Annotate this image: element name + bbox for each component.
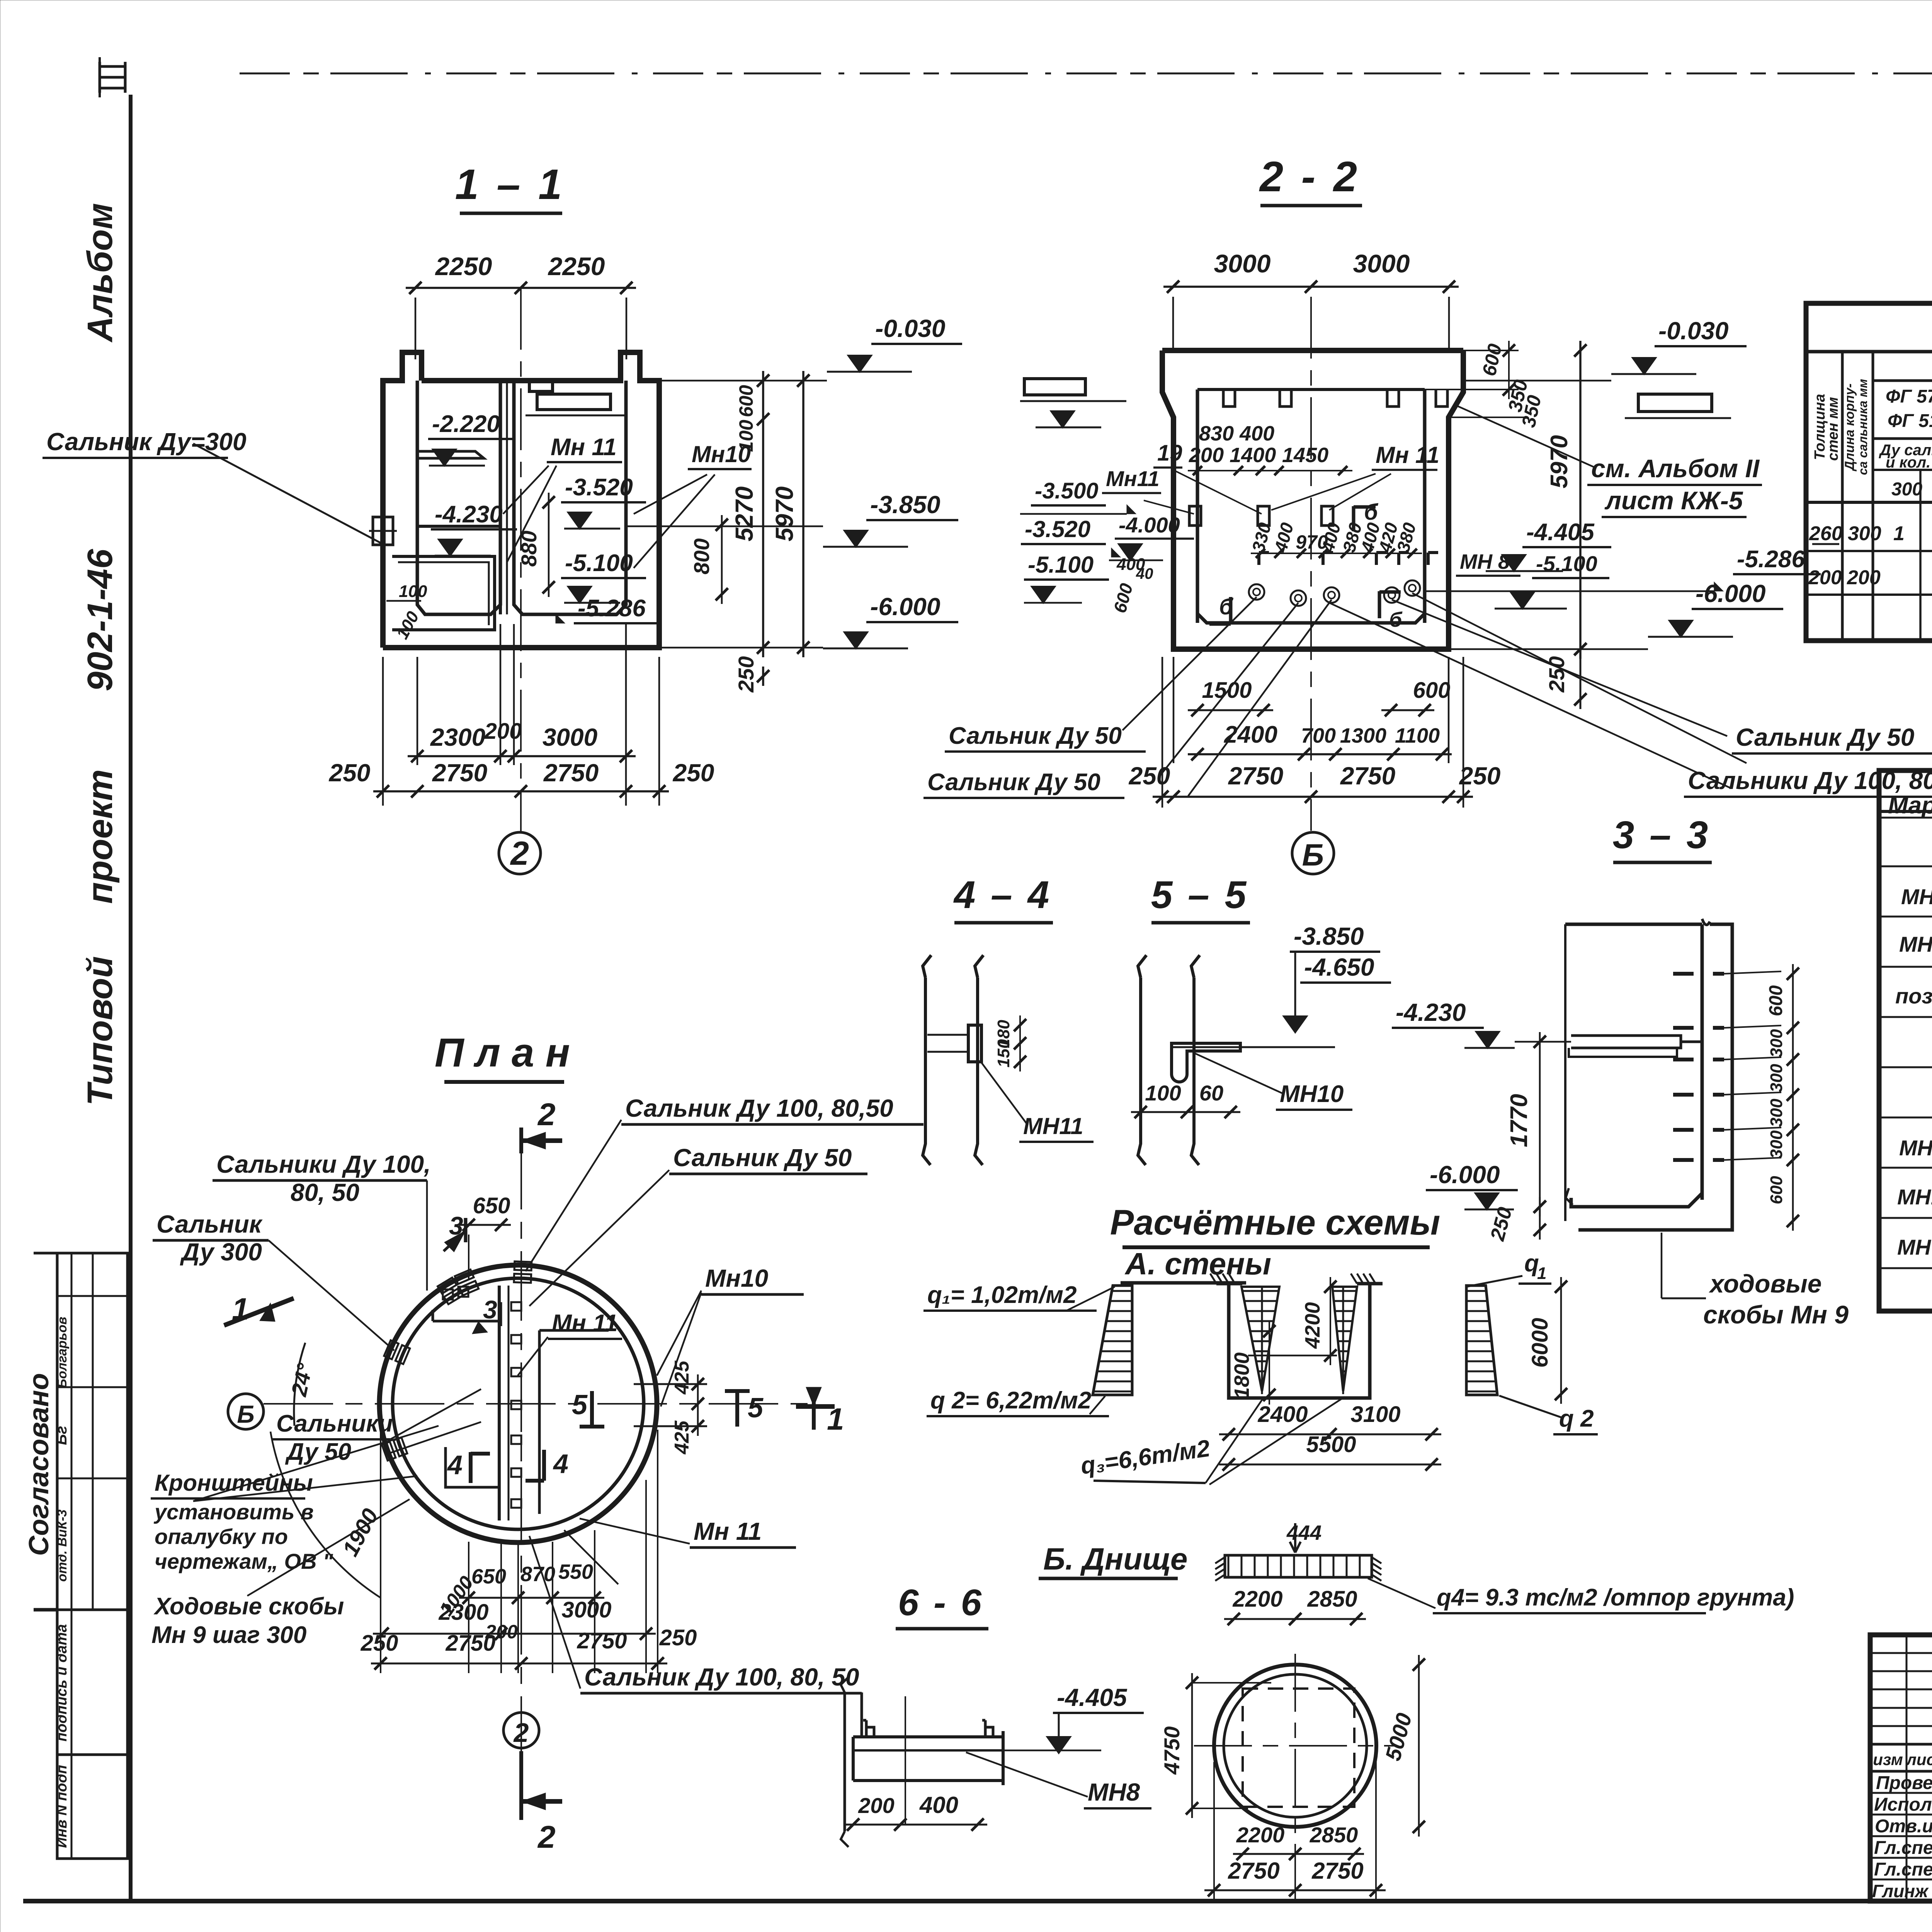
svg-text:1: 1	[827, 1402, 844, 1436]
section 1-1 left chamber ledge at -2.220	[417, 451, 484, 458]
svg-text:550: 550	[558, 1560, 593, 1583]
svg-text:400: 400	[919, 1792, 958, 1818]
svg-text:5: 5	[572, 1389, 588, 1420]
svg-text:Ду 300: Ду 300	[180, 1238, 262, 1266]
svg-text:-3.850: -3.850	[1294, 922, 1364, 950]
svg-text:ФГ 51/58, ФГ51/58а, б: ФГ 51/58, ФГ51/58а, б	[1888, 411, 1932, 431]
svg-text:Глинж пр: Глинж пр	[1872, 1881, 1932, 1901]
svg-text:Гл.спец.: Гл.спец.	[1874, 1859, 1932, 1880]
svg-text:Сальник Ду 50: Сальник Ду 50	[927, 769, 1100, 796]
svg-text:40: 40	[1136, 565, 1153, 582]
svg-text:600: 600	[1766, 985, 1786, 1016]
plan vertical axis	[520, 1140, 522, 1793]
svg-text:250: 250	[734, 656, 758, 692]
svg-text:300: 300	[1891, 479, 1922, 500]
section 1-1 centre axis line	[520, 288, 522, 832]
svg-text:Провер.: Провер.	[1876, 1773, 1932, 1793]
svg-text:4750: 4750	[1160, 1726, 1184, 1775]
svg-text:3000: 3000	[1353, 249, 1410, 278]
svg-text:250: 250	[1129, 762, 1170, 790]
svg-text:-5.100: -5.100	[1028, 552, 1094, 578]
svg-text:600: 600	[1413, 678, 1451, 703]
svg-text:5970: 5970	[1546, 435, 1573, 488]
svg-text:2400: 2400	[1224, 721, 1277, 748]
svg-text:425: 425	[671, 1361, 693, 1395]
svg-text:Мн 11: Мн 11	[1376, 442, 1439, 468]
title block outer	[1870, 1635, 1932, 1901]
section 1-1 lower-left pit	[392, 556, 495, 630]
svg-text:Ду 50: Ду 50	[285, 1439, 351, 1465]
svg-text:установить в: установить в	[153, 1500, 314, 1524]
section 3-3 floor slab	[1571, 1193, 1702, 1207]
svg-text:-4.405: -4.405	[1057, 1684, 1128, 1711]
svg-text:600: 600	[735, 385, 757, 417]
svg-text:Типовой: Типовой	[80, 956, 120, 1106]
svg-text:Сальники Ду 100,: Сальники Ду 100,	[216, 1150, 431, 1178]
svg-text:-5.100: -5.100	[565, 550, 633, 577]
plan wall notches	[511, 1302, 521, 1311]
svg-text:4200: 4200	[1301, 1302, 1324, 1349]
svg-text:подпись и дата: подпись и дата	[54, 1624, 70, 1742]
bottom slab beam diagram	[1225, 1555, 1372, 1577]
svg-text:2300: 2300	[430, 723, 485, 751]
svg-text:-4.405: -4.405	[1526, 519, 1595, 546]
section 1-1 shelf at -4.230	[417, 525, 500, 528]
svg-text:-3.520: -3.520	[1025, 516, 1090, 542]
svg-text:Мн 11: Мн 11	[551, 434, 617, 461]
svg-text:4 – 4: 4 – 4	[953, 873, 1051, 917]
section 4-4 anchor dashes	[927, 1034, 968, 1036]
svg-text:830 400: 830 400	[1199, 422, 1274, 445]
svg-text:МН 11: МН 11	[1899, 932, 1932, 956]
right trapezoid q1/q2	[1466, 1286, 1497, 1395]
formwork dashed rectangle	[1243, 1689, 1354, 1807]
svg-text:q 2= 6,22т/м2: q 2= 6,22т/м2	[930, 1387, 1091, 1414]
svg-text:2750: 2750	[1228, 1858, 1279, 1884]
svg-text:60: 60	[1199, 1081, 1223, 1105]
svg-text:700: 700	[1301, 724, 1336, 747]
svg-text:1450: 1450	[1282, 444, 1328, 467]
section 2-2 rim tabs	[1223, 389, 1235, 406]
svg-text:Сальник Ду 50: Сальник Ду 50	[1736, 723, 1914, 751]
svg-text:q 2: q 2	[1559, 1405, 1594, 1432]
spec table rows	[1879, 866, 1932, 867]
plan outer circle	[379, 1265, 657, 1543]
svg-text:-0.030: -0.030	[875, 315, 945, 342]
svg-text:870: 870	[520, 1563, 555, 1586]
svg-text:3 – 3: 3 – 3	[1613, 813, 1710, 857]
svg-text:250: 250	[1459, 762, 1501, 790]
svg-text:200: 200	[1847, 566, 1881, 589]
svg-text:-6.000: -6.000	[870, 593, 940, 621]
section 2-2 tank outline with rim	[1162, 350, 1463, 649]
svg-text:-6.000: -6.000	[1696, 580, 1765, 607]
svg-text:2: 2	[537, 1820, 556, 1855]
section 6-6 break marks	[844, 1692, 846, 1832]
data row 1	[1806, 550, 1932, 552]
ground hatch at supports	[1210, 1274, 1216, 1284]
svg-text:Ходовые скобы: Ходовые скобы	[153, 1593, 344, 1620]
data row 2	[1806, 594, 1932, 596]
svg-text:-3.500: -3.500	[1035, 478, 1098, 503]
plan section mark 2 bottom	[503, 1713, 539, 1748]
svg-text:Мн10: Мн10	[705, 1264, 768, 1292]
svg-text:Сальник Ду 100, 80, 50: Сальник Ду 100, 80, 50	[584, 1663, 859, 1691]
svg-text:1300: 1300	[1340, 724, 1386, 747]
svg-text:300: 300	[1767, 1130, 1786, 1159]
svg-text:2300: 2300	[438, 1600, 488, 1625]
svg-text:Б. Днище: Б. Днище	[1043, 1542, 1187, 1576]
svg-text:МН8: МН8	[1088, 1778, 1140, 1806]
section 6-6 angle clips	[863, 1720, 874, 1737]
svg-text:4: 4	[553, 1449, 568, 1479]
section 2-2 inner floor	[1197, 614, 1425, 623]
svg-text:2200: 2200	[1232, 1587, 1282, 1612]
formwork centrelines	[1294, 1654, 1296, 1901]
svg-text:3100: 3100	[1350, 1402, 1400, 1427]
section 1-1 axis bubble 2	[499, 832, 541, 874]
section 2-2 floor gland circles	[1249, 584, 1264, 600]
section 1-1 inner cavity left chamber	[417, 381, 500, 614]
section 3-3 ladder rungs	[1673, 972, 1694, 976]
section 3-3 rung leader lines	[1724, 971, 1781, 974]
left margin vertical text: Tipovoy proekt 902-1-46 Albom III	[100, 62, 125, 93]
svg-text:200: 200	[484, 719, 522, 744]
svg-text:лист: лист	[1906, 1750, 1932, 1769]
numbers row	[1873, 469, 1932, 471]
plan inner circle	[393, 1278, 644, 1529]
beam supports hatch	[1215, 1557, 1225, 1563]
plan section mark 1 top-left	[224, 1298, 294, 1325]
plan axis bubble B	[228, 1394, 264, 1429]
svg-text:Длина корпу-: Длина корпу-	[1842, 383, 1857, 471]
svg-text:Бг: Бг	[53, 1426, 70, 1445]
section 5-5 bent plate MN10	[1172, 1043, 1240, 1082]
svg-text:6 - 6: 6 - 6	[898, 1582, 984, 1623]
svg-text:Сальник Ду 100, 80,50: Сальник Ду 100, 80,50	[625, 1094, 893, 1122]
svg-text:Б: Б	[237, 1400, 254, 1428]
svg-text:2 - 2: 2 - 2	[1259, 153, 1360, 201]
plan top-left small squares	[443, 1289, 453, 1299]
plan interior upper-left chord	[433, 1320, 499, 1323]
svg-text:-2.220: -2.220	[432, 411, 500, 437]
section 4-4 wall	[923, 955, 931, 1165]
svg-text:см. Альбом II: см. Альбом II	[1591, 454, 1760, 483]
section 3-3 right dim chain 600 300x5 600	[1792, 964, 1794, 1231]
svg-text:2: 2	[513, 1718, 529, 1748]
svg-text:Мн11: Мн11	[1106, 466, 1160, 491]
svg-text:ходовые: ходовые	[1709, 1269, 1821, 1298]
svg-text:Сальник: Сальник	[156, 1210, 263, 1238]
section 1-1 left wall pipe gland Du300	[373, 517, 393, 545]
section 2-2 embedded angles lower row	[1259, 553, 1269, 565]
svg-text:2750: 2750	[1311, 1858, 1363, 1884]
svg-text:1100: 1100	[1395, 724, 1440, 747]
section 1-1 inner cavity right chamber	[514, 381, 626, 614]
svg-text:опалубку по: опалубку по	[155, 1524, 288, 1549]
section 2-2 rim underside	[1197, 388, 1425, 391]
svg-text:q₁= 1,02т/м2: q₁= 1,02т/м2	[927, 1282, 1077, 1308]
svg-text:2200: 2200	[1236, 1823, 1285, 1847]
svg-text:Расчётные схемы: Расчётные схемы	[1110, 1203, 1440, 1242]
svg-text:5270: 5270	[730, 486, 758, 541]
svg-text:проект: проект	[80, 769, 120, 904]
svg-text:200: 200	[1808, 566, 1842, 589]
svg-text:МН 11: МН 11	[1897, 1235, 1932, 1259]
svg-text:Сальник Ду=300: Сальник Ду=300	[46, 428, 247, 456]
section 2-2 pad rect right	[1638, 394, 1712, 412]
subheader row	[1873, 437, 1932, 440]
svg-text:4: 4	[447, 1450, 463, 1480]
section 1-1 bottom dim chain 2300 200 3000	[382, 657, 384, 806]
svg-text:МН10: МН10	[1280, 1081, 1344, 1107]
svg-text:Отв.исп.: Отв.исп.	[1875, 1816, 1932, 1837]
svg-text:2750: 2750	[1340, 762, 1395, 790]
svg-text:лист КЖ-5: лист КЖ-5	[1604, 486, 1743, 515]
svg-text:Сальник Ду 50: Сальник Ду 50	[673, 1144, 852, 1172]
left trapezoid load q1/q2	[1093, 1286, 1132, 1395]
svg-text:2750: 2750	[1228, 762, 1283, 790]
svg-text:-5.286: -5.286	[1737, 546, 1805, 573]
sheet left frame line	[129, 95, 133, 1901]
svg-text:300: 300	[1767, 1064, 1786, 1092]
svg-text:200 1400: 200 1400	[1189, 444, 1276, 467]
svg-text:-6.000: -6.000	[1430, 1161, 1500, 1189]
sheet bottom frame line	[23, 1899, 1932, 1903]
section 1-1 dividing wall double line	[499, 381, 502, 614]
svg-text:2: 2	[537, 1097, 556, 1132]
body grid vertical lines	[1919, 470, 1922, 641]
svg-text:250: 250	[361, 1631, 398, 1656]
spec table header row	[1879, 810, 1932, 813]
svg-text:Б: Б	[1302, 838, 1324, 872]
svg-text:2850: 2850	[1310, 1823, 1358, 1847]
svg-text:са сальника мм: са сальника мм	[1856, 379, 1870, 475]
svg-text:МН11: МН11	[1023, 1113, 1083, 1139]
svg-text:902-1-46: 902-1-46	[80, 549, 120, 691]
svg-text:-4.650: -4.650	[1304, 953, 1374, 981]
svg-text:80, 50: 80, 50	[291, 1179, 359, 1206]
svg-text:800: 800	[689, 538, 714, 574]
svg-text:Мн 11: Мн 11	[694, 1517, 762, 1545]
svg-text:100: 100	[399, 582, 427, 601]
svg-text:-4.000: -4.000	[1119, 513, 1180, 537]
svg-text:1500: 1500	[1202, 678, 1252, 703]
svg-text:2750: 2750	[445, 1631, 495, 1656]
section 5-5 wall	[1138, 955, 1146, 1165]
section 2-2 pad rect left	[1024, 379, 1085, 395]
svg-text:1800: 1800	[1230, 1352, 1253, 1399]
svg-text:5: 5	[748, 1393, 764, 1423]
svg-text:q4= 9.3 тс/м2 /отпор грунта): q4= 9.3 тс/м2 /отпор грунта)	[1437, 1584, 1794, 1611]
svg-text:250: 250	[673, 759, 714, 787]
svg-text:444: 444	[1286, 1521, 1321, 1544]
section 1-1 overall height dim 5970	[802, 371, 804, 657]
svg-text:300: 300	[1767, 1029, 1786, 1058]
svg-text:1 – 1: 1 – 1	[455, 161, 565, 208]
svg-text:П л а н: П л а н	[435, 1030, 570, 1075]
svg-text:ФГ 57,5/9,5; ФГ 57,5/9,5а, б: ФГ 57,5/9,5; ФГ 57,5/9,5а, б	[1886, 386, 1932, 407]
svg-text:5500: 5500	[1306, 1432, 1356, 1457]
svg-text:250: 250	[659, 1625, 697, 1650]
svg-text:изм: изм	[1873, 1750, 1903, 1769]
svg-text:100: 100	[735, 420, 757, 452]
svg-text:-5.286: -5.286	[578, 595, 646, 622]
svg-text:2750: 2750	[543, 759, 599, 787]
formwork circle inner	[1224, 1674, 1367, 1817]
svg-text:-4.230: -4.230	[435, 501, 503, 528]
section 2-2 axis bubble B	[1292, 832, 1334, 874]
plan 24deg arc	[294, 1343, 305, 1426]
svg-text:Гл.спец.: Гл.спец.	[1874, 1838, 1932, 1858]
section 1-1 top small notch	[529, 381, 553, 391]
sheet top border	[240, 73, 1932, 75]
svg-text:650: 650	[473, 1193, 510, 1218]
svg-text:-4.230: -4.230	[1396, 998, 1466, 1026]
svg-text:5 – 5: 5 – 5	[1151, 873, 1248, 917]
svg-text:2400: 2400	[1257, 1402, 1308, 1427]
plan dividing wall	[498, 1286, 501, 1520]
title block signature rows	[1870, 1792, 1932, 1794]
svg-text:6000: 6000	[1527, 1318, 1553, 1367]
table Vyborka salnikov outer	[1806, 303, 1932, 641]
svg-text:б: б	[1389, 608, 1403, 631]
left rotated header cols	[1841, 352, 1844, 641]
svg-text:300: 300	[1767, 1099, 1786, 1127]
section 1-1 tank outline	[383, 352, 659, 648]
section 6-6 centreline	[905, 1696, 906, 1824]
svg-text:Согласовано: Согласовано	[24, 1373, 54, 1556]
svg-text:Мн 11: Мн 11	[552, 1310, 618, 1337]
svg-text:600: 600	[1767, 1176, 1786, 1204]
section 4-4 embedded plate	[968, 1025, 981, 1062]
svg-text:1: 1	[1537, 1264, 1546, 1283]
svg-text:300: 300	[1848, 522, 1881, 545]
svg-text:Альбом: Альбом	[80, 203, 120, 343]
svg-text:2850: 2850	[1307, 1587, 1357, 1612]
plan horizontal axis	[264, 1403, 817, 1405]
svg-text:3: 3	[483, 1295, 497, 1324]
svg-text:МН10: МН10	[1897, 1185, 1932, 1209]
svg-text:3000: 3000	[543, 723, 597, 751]
plan section mark 1 right	[796, 1404, 835, 1409]
middle M-diagram	[1242, 1287, 1279, 1391]
svg-text:1770: 1770	[1506, 1094, 1532, 1147]
svg-text:-3.850: -3.850	[870, 491, 940, 519]
title block column lines left part	[1906, 1635, 1908, 1901]
svg-text:970: 970	[1296, 531, 1328, 553]
svg-text:Исполн.: Исполн.	[1874, 1794, 1932, 1815]
svg-text:1: 1	[1893, 522, 1905, 545]
svg-text:А. стены: А. стены	[1124, 1247, 1271, 1281]
svg-text:1: 1	[232, 1292, 249, 1326]
section 3-3 pipe sleeve	[1571, 1036, 1702, 1048]
svg-text:-0.030: -0.030	[1658, 317, 1728, 345]
formwork circle outer	[1214, 1665, 1376, 1827]
svg-text:МН 9: МН 9	[1899, 1136, 1932, 1160]
svg-text:отд. ВиК-3: отд. ВиК-3	[55, 1509, 70, 1582]
title block header row izm/list	[1870, 1743, 1932, 1746]
svg-text:и кол. шт: и кол. шт	[1886, 454, 1932, 471]
svg-text:260: 260	[1809, 522, 1843, 545]
section 2-2 leader lines to gland labels	[1122, 597, 1257, 730]
M-diagram frame: U-shaped wall line	[1229, 1284, 1370, 1398]
svg-text:3000: 3000	[1214, 249, 1271, 278]
svg-text:Марка: Марка	[1888, 792, 1932, 819]
leader to Salnik Du300 label	[193, 444, 381, 543]
svg-text:Сальник Ду 50: Сальник Ду 50	[949, 723, 1122, 749]
svg-text:Инв N подп: Инв N подп	[54, 1765, 70, 1848]
svg-text:2750: 2750	[432, 759, 487, 787]
section 1-1 right dim chain 600 100 5270 250	[762, 371, 764, 657]
section 3-3 wall outline	[1565, 924, 1732, 1230]
svg-text:2750: 2750	[577, 1628, 627, 1653]
svg-text:поз. 19: поз. 19	[1895, 984, 1932, 1008]
plan interior right L-line	[539, 1330, 609, 1514]
svg-text:100: 100	[1145, 1081, 1181, 1105]
svg-text:19: 19	[1157, 440, 1182, 466]
svg-text:МН 8: МН 8	[1901, 884, 1932, 909]
svg-text:200: 200	[858, 1793, 894, 1818]
section 1-1 equipment pad top right	[537, 394, 611, 410]
svg-text:5970: 5970	[770, 486, 798, 541]
left stamp box: podpis i data	[57, 1610, 128, 1755]
plan interior lower-left step	[446, 1447, 499, 1487]
svg-text:-5.100: -5.100	[1536, 551, 1597, 576]
section 6-6 slab	[853, 1737, 1003, 1781]
svg-text:250: 250	[329, 759, 371, 787]
svg-text:2: 2	[510, 835, 529, 872]
svg-text:б: б	[1364, 500, 1379, 525]
left stamp box: inv N podp	[57, 1755, 128, 1859]
svg-text:Сальники: Сальники	[276, 1410, 393, 1437]
svg-text:МН 8: МН 8	[1460, 550, 1510, 573]
svg-text:Болгарьов: Болгарьов	[55, 1317, 70, 1388]
svg-text:2250: 2250	[548, 252, 605, 281]
svg-text:Мн 9 шаг 300: Мн 9 шаг 300	[151, 1622, 306, 1648]
svg-text:880: 880	[517, 531, 541, 566]
svg-text:-3.520: -3.520	[565, 474, 633, 501]
svg-text:стен мм: стен мм	[1825, 397, 1841, 461]
svg-text:2250: 2250	[435, 252, 492, 281]
svg-text:скобы Мн 9: скобы Мн 9	[1703, 1300, 1849, 1329]
section 2-2 embedded plates upper row	[1189, 506, 1201, 526]
svg-text:3000: 3000	[561, 1597, 611, 1622]
plan gland marks on circle wall	[514, 1261, 532, 1283]
svg-text:150: 150	[994, 1039, 1013, 1068]
title block small rows top-left	[1870, 1652, 1932, 1654]
spec table outer	[1879, 770, 1932, 1311]
